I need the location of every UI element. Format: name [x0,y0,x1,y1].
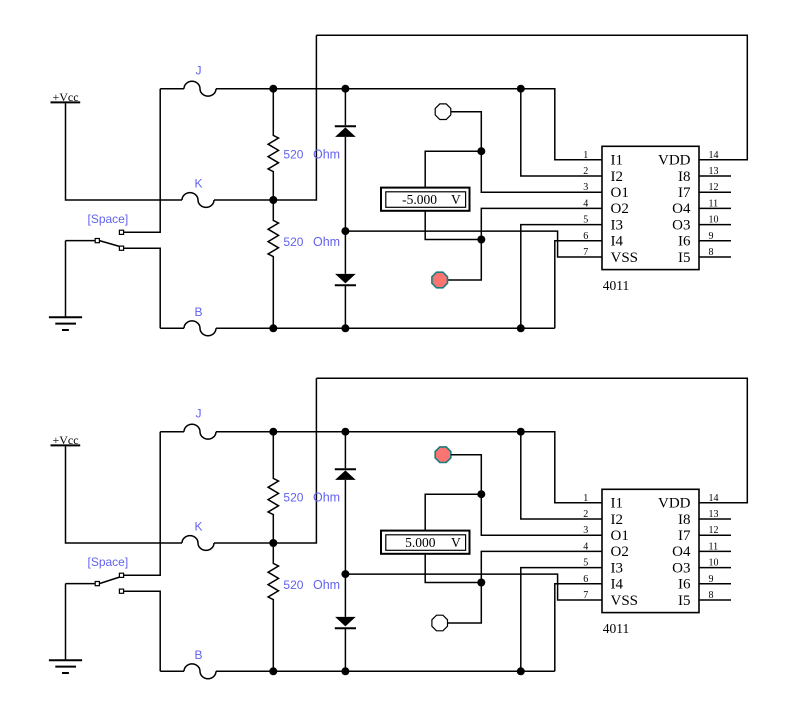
wire node B left segment [160,327,184,329]
diode D1 (cathode bar up, triangle pointing up) [335,126,356,137]
junction dot 1.9 [341,324,349,332]
voltmeter M2 reading label [405,535,461,550]
diode D2 (triangle pointing down, cathode bar below) [335,274,356,285]
svg-text:[Space]: [Space] [88,212,129,226]
svg-text:O4: O4 [672,544,691,560]
IC U2 pin 11 stub [699,550,731,552]
wire pin 6 to node B corner [555,241,602,328]
voltmeter M1 reading label [402,192,461,207]
svg-text:6: 6 [583,574,588,585]
switch S2 contacts and lever [95,573,123,593]
junction dot 2.2 [341,428,349,436]
svg-text:520: 520 [283,235,303,249]
svg-text:I3: I3 [611,217,624,233]
wire ground rail to switch pole [66,583,96,585]
junction dot 1.6 [341,227,349,235]
svg-text:K: K [194,177,202,191]
svg-text:I8: I8 [678,169,691,185]
svg-text:[Space]: [Space] [88,555,129,569]
junction dot 2.5 [477,490,485,498]
junction dot 2.10 [517,667,525,675]
junction dot 1.1 [269,85,277,93]
IC U1 pin 9 stub [699,240,731,242]
wire pin 5 to node B [521,225,602,329]
svg-text:2: 2 [583,509,588,520]
svg-text:14: 14 [709,493,719,504]
junction dot 2.1 [269,428,277,436]
svg-text:I2: I2 [611,512,624,528]
junction dot 1.7 [477,236,485,244]
op-amp substitute: IC U2 4011 quad NAND body [602,489,699,612]
svg-text:Ohm: Ohm [313,235,340,249]
junction dot 1.2 [341,85,349,93]
IC U2 pin 13 stub [699,518,731,520]
wire diode D1 anode to mid junction [344,137,346,231]
svg-text:I5: I5 [678,250,691,266]
wire switch pole to ground [65,584,67,661]
svg-text:I4: I4 [611,577,624,593]
resistor R1 leads and zigzag [268,89,278,200]
svg-text:Ohm: Ohm [313,490,340,504]
ground symbol (circuit 2) [49,660,82,673]
junction dot 2.9 [341,667,349,675]
wire pin 6 to node B corner [555,584,602,672]
svg-text:520: 520 [283,147,303,161]
wire ground rail to switch pole [66,240,96,242]
wire junction to pin 3 [481,151,602,192]
svg-text:5: 5 [583,215,588,226]
junction dot 2.4 [269,539,277,547]
junction dot 1.5 [477,147,485,155]
lamp X4 [432,615,448,631]
wire diode mid node to pin 7 VSS [345,574,602,600]
connector B (circuit 2) [184,664,216,679]
svg-text:O3: O3 [672,217,690,233]
wire node K to junction and loop riser [214,35,316,200]
wire switch lower throw to node B rail [124,248,161,328]
IC U1 pin 12 stub [699,191,731,193]
wire pin 4 to lower junction to lamp X4 [448,551,602,623]
connector J (circuit 2) [184,424,216,439]
svg-text:-5.000: -5.000 [402,192,437,207]
connector J (circuit 1) [184,81,216,96]
svg-text:520: 520 [283,490,303,504]
wire voltmeter bottom lead to junction [425,554,481,583]
svg-text:I8: I8 [678,512,691,528]
svg-text:O1: O1 [611,185,629,201]
IC U1 pin 11 stub [699,207,731,209]
wire lamp X3 to junction above meter [451,455,481,495]
svg-text:2: 2 [583,166,588,177]
junction dot 2.7 [477,579,485,587]
svg-text:VSS: VSS [611,593,639,609]
svg-text:3: 3 [583,182,588,193]
svg-text:O1: O1 [611,528,629,544]
svg-text:I7: I7 [678,185,691,201]
svg-text:VSS: VSS [611,250,639,266]
svg-text:VDD: VDD [658,153,691,169]
svg-text:4: 4 [583,198,588,209]
svg-text:14: 14 [709,150,719,161]
svg-text:I3: I3 [611,560,624,576]
svg-text:I5: I5 [678,593,691,609]
svg-text:520: 520 [283,578,303,592]
wire switch pole to ground [65,241,67,318]
IC U1 pin 8 stub [699,256,731,258]
junction dot 1.3 [517,85,525,93]
wire node J to pin 1 riser [216,89,602,160]
ground symbol (circuit 1) [49,317,82,330]
wire mid junction to diode D2 [344,231,346,274]
wire node J to pin 2 [521,432,602,519]
wire diode mid node to pin 7 VSS [345,231,602,257]
wire left rail node J to switch upper throw [124,432,161,576]
op-amp substitute: IC U1 4011 quad NAND body [602,146,699,269]
voltmeter M2 [381,531,470,554]
diode D3 (cathode bar up, triangle pointing up) [335,469,356,480]
lamp X1 [435,104,451,120]
wire voltmeter top lead to junction [425,151,481,187]
IC U2 pin 10 stub [699,567,731,569]
svg-text:B: B [194,648,202,662]
svg-text:I1: I1 [611,153,624,169]
svg-text:6: 6 [583,231,588,242]
svg-text:O2: O2 [611,544,629,560]
svg-text:J: J [196,407,202,421]
wire voltmeter bottom lead to junction [425,211,481,240]
IC U2 pin 12 stub [699,534,731,536]
wire node J left segment [160,431,184,433]
svg-text:4: 4 [583,541,588,552]
svg-text:I6: I6 [678,577,691,593]
diode D4 (triangle pointing down, cathode bar below) [335,617,356,628]
svg-text:O4: O4 [672,201,691,217]
power +Vcc (circuit 2) [51,433,81,447]
wire node J to pin 1 riser [216,432,602,503]
svg-text:3: 3 [583,525,588,536]
IC U2 pin 9 stub [699,583,731,585]
wire +Vcc stem to node K rail [66,446,183,543]
svg-text:7: 7 [583,590,588,601]
lamp X2 [432,272,448,288]
svg-text:O2: O2 [611,201,629,217]
voltmeter M1 [381,188,470,211]
connector K (circuit 1) [182,193,214,208]
wire node K to junction and loop riser [214,378,316,543]
wire diode D3 anode to mid junction [344,480,346,574]
wire top loop to pin 14 [316,378,747,503]
connector B (circuit 1) [184,321,216,336]
svg-text:J: J [196,64,202,78]
junction dot 1.8 [269,324,277,332]
svg-text:I4: I4 [611,234,624,250]
lamp X3 [435,447,451,463]
svg-text:I7: I7 [678,528,691,544]
wire +Vcc stem to node K rail [66,103,183,200]
switch S1 contacts and lever [95,230,123,250]
svg-text:O3: O3 [672,560,690,576]
svg-text:VDD: VDD [658,496,691,512]
wire lamp X1 to junction above meter [451,112,481,152]
svg-text:V: V [451,192,461,207]
junction dot 1.4 [269,196,277,204]
svg-text:B: B [194,305,202,319]
wire junction to pin 3 [481,494,602,535]
wire node J left segment [160,88,184,90]
wire mid junction to diode D4 [344,574,346,617]
wire pin 4 to lower junction to lamp X2 [448,208,602,280]
wire diode D4 to node B [344,628,346,671]
junction dot 2.6 [341,570,349,578]
IC U1 pin 10 stub [699,224,731,226]
wire node J to diode D3 cathode [344,432,346,469]
junction dot 2.8 [269,667,277,675]
svg-text:1: 1 [583,150,588,161]
svg-text:I2: I2 [611,169,624,185]
svg-text:V: V [451,535,461,550]
svg-text:I1: I1 [611,496,624,512]
svg-text:Ohm: Ohm [313,578,340,592]
wire node J to diode D1 cathode [344,89,346,126]
svg-text:Ohm: Ohm [313,147,340,161]
wire node B left segment [160,670,184,672]
wire switch lower throw to node B rail [124,591,161,671]
IC U1 pin 13 stub [699,175,731,177]
svg-text:4011: 4011 [603,621,630,636]
junction dot 2.3 [517,428,525,436]
wire left rail node J to switch upper throw [124,89,161,233]
wire node B main run [216,670,555,672]
wire node J to pin 2 [521,89,602,176]
wire pin 5 to node B [521,568,602,672]
svg-text:5: 5 [583,558,588,569]
svg-text:7: 7 [583,247,588,258]
svg-text:5.000: 5.000 [405,535,436,550]
wire voltmeter top lead to junction [425,494,481,530]
svg-text:I6: I6 [678,234,691,250]
resistor R3 leads and zigzag [268,432,278,543]
svg-text:1: 1 [583,493,588,504]
svg-text:K: K [194,520,202,534]
resistor R2 leads and zigzag [268,200,278,328]
power +Vcc (circuit 1) [51,90,81,104]
svg-text:4011: 4011 [603,278,630,293]
junction dot 1.10 [517,324,525,332]
connector K (circuit 2) [182,536,214,551]
wire node B main run [216,327,555,329]
wire top loop to pin 14 [316,35,747,160]
resistor R4 leads and zigzag [268,543,278,671]
wire diode D2 to node B [344,285,346,328]
IC U2 pin 8 stub [699,599,731,601]
